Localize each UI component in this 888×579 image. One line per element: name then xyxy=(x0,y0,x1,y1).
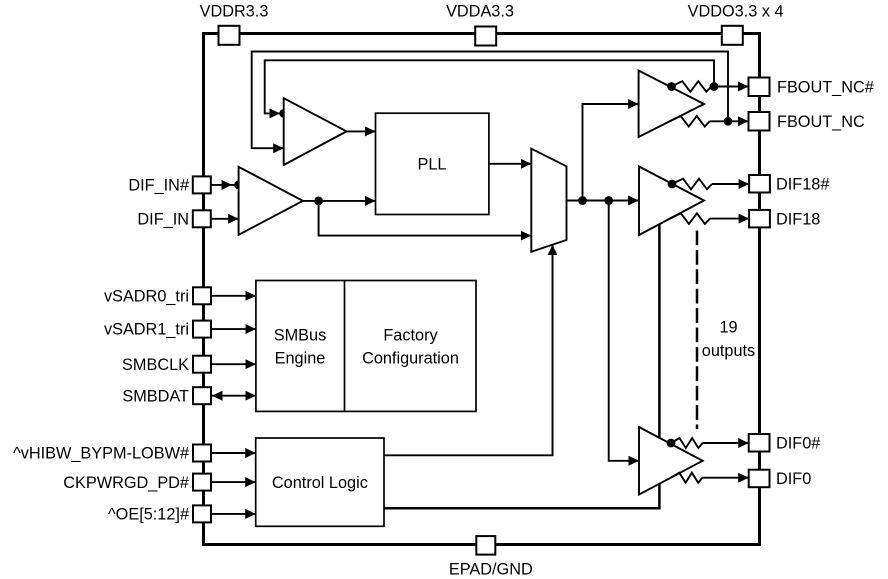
Control Logic box xyxy=(256,438,384,526)
pin SMBCLK xyxy=(122,356,211,374)
pin DIF18# xyxy=(749,175,829,194)
svg-text:SMBus: SMBus xyxy=(274,326,326,344)
op-amp DIF18 buffer xyxy=(639,167,704,236)
pin DIF0 xyxy=(749,470,812,488)
svg-text:outputs: outputs xyxy=(702,342,755,360)
pin EPAD/GND xyxy=(449,536,533,578)
svg-text:FBOUT_NC#: FBOUT_NC# xyxy=(777,78,874,96)
node junction dot input buffer output xyxy=(314,197,323,206)
pin VDDO3.3 x 4 xyxy=(688,3,784,45)
wire feedback buffer output to PLL xyxy=(347,130,376,132)
wire branch to DIF0 buffer xyxy=(609,201,639,461)
op-amp DIF0 buffer xyxy=(639,427,703,495)
wire resistor to FBOUT_NC pin xyxy=(710,120,749,122)
op-amp input buffer xyxy=(239,167,303,235)
svg-text:^OE[5:12]#: ^OE[5:12]# xyxy=(108,506,189,524)
wire control logic to output buffers enable xyxy=(384,224,659,508)
node junction dot FBOUT_NC feedback tap xyxy=(724,117,733,126)
wire resistor to DIF18 pin xyxy=(710,218,749,220)
wire resistor to DIF0 pin xyxy=(702,477,748,479)
svg-text:DIF0: DIF0 xyxy=(776,470,811,488)
wire vSADR0_tri to SMBus xyxy=(211,295,256,297)
wire SMBCLK to SMBus xyxy=(211,363,256,365)
svg-text:DIF18: DIF18 xyxy=(776,210,820,228)
resistor DIF18 termination xyxy=(670,213,710,224)
op-amp feedback buffer xyxy=(284,98,347,165)
pin vSADR1_tri xyxy=(104,321,211,339)
svg-text:PLL: PLL xyxy=(418,156,447,174)
svg-text:DIF_IN#: DIF_IN# xyxy=(128,177,189,195)
wire resistor to FBOUT_NC# pin xyxy=(711,86,748,88)
svg-text:19: 19 xyxy=(719,318,737,336)
pin vSADR0_tri xyxy=(104,287,211,305)
node 19 outputs label xyxy=(702,318,755,360)
svg-text:Engine: Engine xyxy=(275,349,326,367)
SMBus Engine / Factory Configuration box xyxy=(256,281,476,412)
wire ^OE[5:12]# to Control Logic xyxy=(211,513,256,515)
pin VDDA3.3 xyxy=(446,3,514,46)
wire input buffer output to PLL xyxy=(303,200,376,202)
node junction dot mux output branch 2 xyxy=(604,196,613,205)
node junction dot mux output branch 1 xyxy=(578,196,587,205)
svg-text:DIF_IN: DIF_IN xyxy=(137,211,189,229)
wire CKPWRGD_PD# to Control Logic xyxy=(211,481,256,483)
svg-text:SMBCLK: SMBCLK xyxy=(122,356,189,374)
op-amp FBOUT buffer xyxy=(639,71,704,138)
node junction dot FBOUT buffer top edge xyxy=(667,82,676,91)
svg-text:DIF18#: DIF18# xyxy=(776,176,829,194)
svg-text:vSADR1_tri: vSADR1_tri xyxy=(104,321,189,339)
wire branch to FBOUT buffer xyxy=(583,104,639,201)
wire mux output to DIF18 buffer xyxy=(567,200,639,202)
PLL box U1 xyxy=(376,113,489,214)
svg-text:CKPWRGD_PD#: CKPWRGD_PD# xyxy=(63,474,189,492)
wire SMBDAT bidirectional to SMBus xyxy=(212,391,256,401)
pin DIF18 xyxy=(749,210,820,228)
svg-text:VDDR3.3: VDDR3.3 xyxy=(200,3,269,21)
svg-text:SMBDAT: SMBDAT xyxy=(122,387,189,405)
node junction dot feedback buffer input xyxy=(279,109,288,118)
chip boundary xyxy=(204,34,760,545)
wire PLL output to mux xyxy=(489,163,531,165)
resistor FBOUT_NC termination xyxy=(670,116,710,127)
pin FBOUT_NC xyxy=(749,112,865,131)
wire DIF_IN to input buffer xyxy=(211,218,239,220)
pin VDDR3.3 xyxy=(200,3,269,45)
wire resistor to DIF18# pin xyxy=(712,183,749,185)
resistor DIF0# termination xyxy=(671,438,702,448)
resistor DIF0 termination xyxy=(671,473,702,483)
wire feedback loop A (FBOUT_NC to feedback buffer lower input) xyxy=(252,52,728,149)
svg-text:EPAD/GND: EPAD/GND xyxy=(449,561,533,579)
pin DIF0# xyxy=(749,434,821,453)
resistor DIF18# termination xyxy=(672,179,712,190)
mux xyxy=(531,149,566,252)
svg-text:Control Logic: Control Logic xyxy=(272,474,368,492)
pin ^OE[5:12]# xyxy=(108,505,211,523)
wire bypass from input buffer to mux xyxy=(319,201,532,236)
resistor FBOUT_NC# termination xyxy=(671,81,711,92)
node 19 outputs dash-dot line xyxy=(696,231,699,430)
wire feedback loop B (FBOUT_NC# to feedback buffer upper input) xyxy=(265,60,714,118)
pin DIF_IN# xyxy=(128,176,210,194)
node junction dot input buffer inverting input xyxy=(234,181,243,190)
svg-text:Factory: Factory xyxy=(383,326,438,344)
svg-text:^vHIBW_BYPM-LOBW#: ^vHIBW_BYPM-LOBW# xyxy=(13,445,189,463)
svg-text:vSADR0_tri: vSADR0_tri xyxy=(104,287,189,305)
wire control logic to mux select xyxy=(384,245,553,456)
svg-text:VDDO3.3 x 4: VDDO3.3 x 4 xyxy=(688,3,784,21)
svg-text:VDDA3.3: VDDA3.3 xyxy=(446,3,514,21)
node junction dot DIF18 buffer top edge xyxy=(668,180,677,189)
svg-text:DIF0#: DIF0# xyxy=(776,435,820,453)
wire ^vHIBW_BYPM-LOBW# to Control Logic xyxy=(211,452,256,454)
wire resistor to DIF0# pin xyxy=(703,442,749,444)
node junction dot DIF0 buffer top edge xyxy=(667,439,676,448)
pin FBOUT_NC# xyxy=(749,78,874,97)
pin SMBDAT xyxy=(122,387,211,405)
pin DIF_IN xyxy=(137,210,210,228)
pin ^vHIBW_BYPM-LOBW# xyxy=(13,445,211,463)
svg-text:Configuration: Configuration xyxy=(362,349,459,367)
svg-text:FBOUT_NC: FBOUT_NC xyxy=(777,113,865,131)
pin CKPWRGD_PD# xyxy=(63,474,211,492)
wire DIF_IN# to input buffer xyxy=(211,180,239,190)
node junction dot FBOUT_NC# feedback tap xyxy=(710,82,719,91)
wire vSADR1_tri to SMBus xyxy=(211,328,256,330)
